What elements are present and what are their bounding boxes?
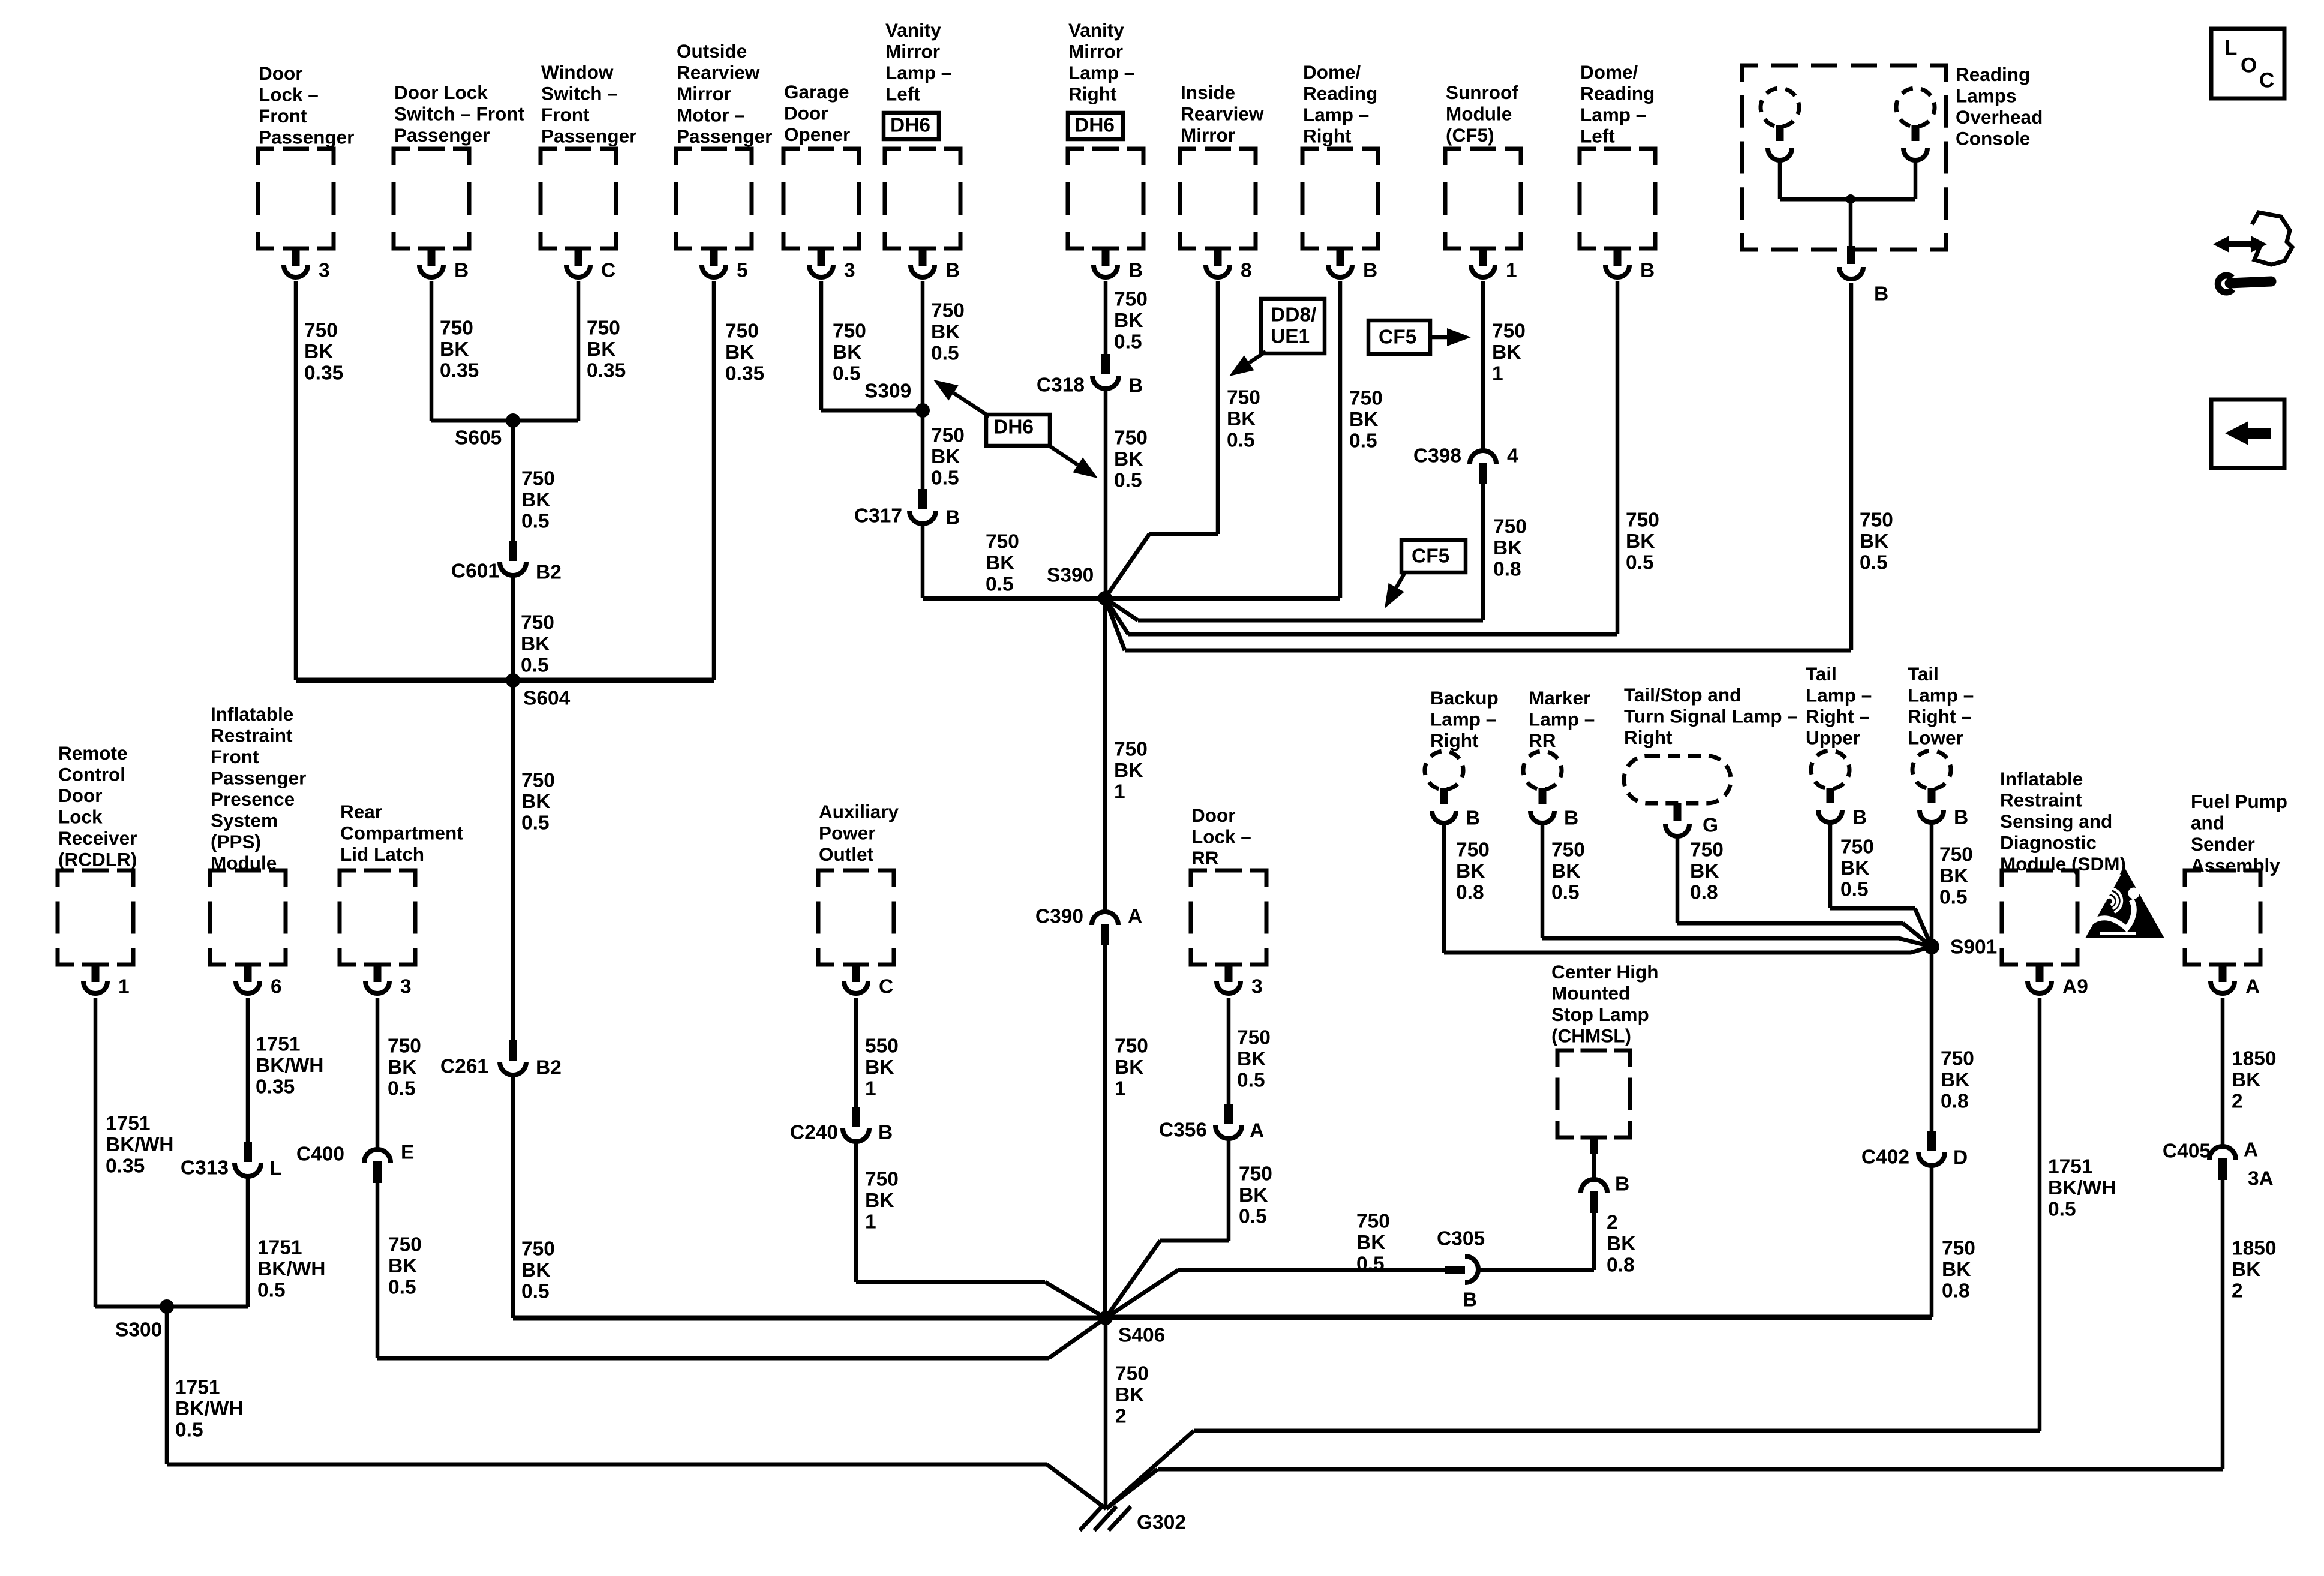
svg-text:0.5: 0.5 bbox=[2048, 1198, 2076, 1220]
svg-text:Restraint: Restraint bbox=[2000, 789, 2082, 810]
svg-text:750: 750 bbox=[986, 530, 1019, 553]
svg-text:1: 1 bbox=[1506, 259, 1517, 281]
pin connector 3 of Garage Door Opener bbox=[809, 248, 855, 281]
svg-text:0.8: 0.8 bbox=[1941, 1090, 1969, 1112]
svg-text:S309: S309 bbox=[864, 380, 911, 402]
wire Vanity Mirror Lamp Right pin B to C318 bbox=[1104, 281, 1108, 355]
svg-text:BK: BK bbox=[865, 1056, 894, 1079]
connector C400 E bbox=[296, 1141, 414, 1183]
svg-text:750: 750 bbox=[521, 467, 555, 490]
svg-text:Left: Left bbox=[885, 83, 920, 104]
svg-text:System: System bbox=[211, 809, 278, 831]
svg-text:1751: 1751 bbox=[257, 1236, 302, 1259]
wire label 550 BK 1 (aux power outlet) bbox=[865, 1035, 899, 1100]
svg-text:3A: 3A bbox=[2248, 1167, 2274, 1190]
pin B of Marker Lamp – RR bbox=[1564, 807, 1578, 829]
svg-text:BK: BK bbox=[1626, 530, 1655, 553]
svg-text:3: 3 bbox=[844, 259, 855, 281]
lamp: Tail/Stop and Turn Signal Lamp - Right bbox=[1624, 756, 1731, 836]
svg-text:0.8: 0.8 bbox=[1690, 881, 1718, 903]
pin connector A9 of SDM bbox=[2028, 964, 2088, 998]
svg-text:B: B bbox=[1466, 807, 1480, 829]
svg-text:Door: Door bbox=[58, 785, 103, 806]
svg-text:750: 750 bbox=[521, 611, 554, 634]
svg-text:1850: 1850 bbox=[2232, 1237, 2277, 1259]
svg-text:0.5: 0.5 bbox=[1227, 429, 1255, 451]
lamp: Tail Lamp - Right - Lower bbox=[1908, 663, 1974, 822]
wire Tail/Stop Lamp to S901 bbox=[1677, 836, 1932, 947]
svg-text:0.5: 0.5 bbox=[1356, 1253, 1385, 1275]
wire reading lamp left to junction bbox=[1780, 160, 1851, 199]
wire RCDLR pin 1 to S300 bbox=[94, 998, 98, 1307]
svg-text:RR: RR bbox=[1529, 730, 1556, 751]
component box: Inside Rearview Mirror bbox=[1180, 82, 1264, 248]
svg-text:Passenger: Passenger bbox=[677, 125, 772, 147]
svg-text:E: E bbox=[401, 1141, 414, 1163]
svg-text:0.5: 0.5 bbox=[1114, 469, 1142, 491]
svg-text:750: 750 bbox=[1551, 839, 1585, 861]
svg-text:BK: BK bbox=[725, 341, 754, 364]
callout tag DD8/UE1 bbox=[1229, 299, 1325, 376]
svg-text:Console: Console bbox=[1956, 127, 2030, 149]
svg-text:L: L bbox=[2224, 36, 2237, 59]
svg-text:1: 1 bbox=[865, 1077, 876, 1100]
wire label 750 BK 0.5 (dome reading right) bbox=[1349, 387, 1383, 452]
svg-text:B: B bbox=[1615, 1173, 1629, 1195]
svg-text:750: 750 bbox=[1114, 427, 1148, 449]
icon back-arrow box bbox=[2211, 400, 2284, 468]
svg-text:O: O bbox=[2241, 53, 2257, 77]
connector C240 B bbox=[790, 1107, 893, 1143]
svg-text:Door: Door bbox=[259, 62, 303, 84]
callout tag DH6 (vanity left) bbox=[884, 113, 939, 139]
wire S604 horizontal bus bbox=[296, 678, 714, 683]
wire label 2 BK 0.8 (CHMSL) bbox=[1607, 1211, 1635, 1276]
svg-text:Outside: Outside bbox=[677, 40, 747, 62]
svg-text:750: 750 bbox=[388, 1233, 422, 1256]
svg-text:750: 750 bbox=[1115, 1362, 1149, 1385]
wire Aux Power Outlet pin C to C240 bbox=[854, 998, 858, 1107]
wire label 750 BK 0.5 (door lock RR) bbox=[1237, 1026, 1271, 1091]
pin connector 3 of Door Lock – Front Passenger bbox=[284, 248, 330, 281]
wire label 750 BK 2 (S406 to G302) bbox=[1115, 1362, 1149, 1427]
svg-text:750: 750 bbox=[1239, 1163, 1272, 1185]
svg-text:BK: BK bbox=[521, 1259, 550, 1281]
svg-text:Auxiliary: Auxiliary bbox=[819, 801, 899, 822]
svg-text:750: 750 bbox=[1456, 839, 1490, 861]
svg-text:BK: BK bbox=[388, 1255, 417, 1277]
splice S901 bbox=[1924, 936, 1997, 958]
wire C398 to S390 line bbox=[1481, 484, 1485, 620]
svg-text:5: 5 bbox=[737, 259, 748, 281]
wire Inside Rearview Mirror pin 8 down bbox=[1216, 281, 1220, 534]
wire label 750 BK 0.5 (S605 to C601) bbox=[521, 467, 555, 532]
wire label 750 BK 1 (C390 to S406) bbox=[1115, 1035, 1148, 1100]
component box: Auxiliary Power Outlet bbox=[818, 801, 899, 965]
svg-text:750: 750 bbox=[1114, 288, 1148, 310]
svg-text:BK: BK bbox=[1492, 341, 1521, 364]
svg-text:Lamp –: Lamp – bbox=[1908, 684, 1974, 706]
lamp label Tail/Stop and Turn Signal Lamp - Right bbox=[1624, 684, 1798, 748]
component box: Center High Mounted Stop Lamp (CHMSL) bbox=[1551, 961, 1659, 1137]
svg-text:Lamp –: Lamp – bbox=[1068, 62, 1134, 83]
connector C405 A 3A bbox=[2163, 1139, 2274, 1190]
svg-text:Tail/Stop and: Tail/Stop and bbox=[1624, 684, 1741, 706]
svg-text:BK: BK bbox=[833, 341, 861, 364]
svg-text:2: 2 bbox=[2232, 1090, 2243, 1112]
lamp: Tail Lamp - Right - Upper bbox=[1806, 663, 1872, 822]
component box: Door Lock Switch – Front Passenger bbox=[394, 82, 525, 248]
svg-text:Rearview: Rearview bbox=[1181, 103, 1264, 124]
wire label 1751 BK/WH 0.35 (RCDLR) bbox=[106, 1112, 174, 1177]
connector B of CHMSL bbox=[1581, 1137, 1629, 1213]
svg-text:Mirror: Mirror bbox=[677, 83, 731, 104]
component box: Fuel Pump and Sender Assembly bbox=[2185, 791, 2287, 965]
wire C317 down and right to S390 bbox=[923, 524, 1105, 598]
svg-text:2: 2 bbox=[1607, 1211, 1618, 1233]
svg-text:Right –: Right – bbox=[1908, 706, 1972, 727]
svg-text:0.35: 0.35 bbox=[440, 359, 479, 382]
wire label 750 BK 0.8 (S901 to C402) bbox=[1941, 1047, 1974, 1112]
connector C317 B bbox=[854, 489, 960, 529]
svg-text:Lock –: Lock – bbox=[1191, 825, 1251, 847]
svg-text:D: D bbox=[1953, 1146, 1968, 1169]
svg-text:C: C bbox=[2259, 68, 2274, 92]
svg-text:G: G bbox=[1703, 814, 1718, 836]
svg-text:Lower: Lower bbox=[1908, 727, 1963, 748]
svg-text:750: 750 bbox=[304, 319, 338, 341]
svg-text:Presence: Presence bbox=[211, 788, 295, 810]
wire label 1751 BK/WH 0.5 (SDM) bbox=[2048, 1155, 2116, 1220]
lamp: Marker Lamp – RR bbox=[1519, 687, 1595, 823]
svg-text:Center High: Center High bbox=[1551, 961, 1659, 983]
ground G302 bbox=[1080, 1506, 1186, 1533]
connector C390 A bbox=[1035, 905, 1142, 945]
svg-text:Lamp –: Lamp – bbox=[885, 62, 951, 83]
wire Fuel Pump to C405 bbox=[2221, 998, 2225, 1145]
wire garage door opener to S309 bbox=[821, 409, 923, 413]
svg-text:Fuel Pump: Fuel Pump bbox=[2191, 791, 2287, 812]
svg-text:1: 1 bbox=[865, 1211, 876, 1233]
pin connector B of Vanity Mirror Lamp – Left bbox=[911, 248, 960, 281]
svg-text:DH6: DH6 bbox=[993, 416, 1034, 438]
svg-text:BK: BK bbox=[1493, 537, 1522, 559]
svg-text:0.8: 0.8 bbox=[1942, 1280, 1970, 1302]
svg-text:Stop Lamp: Stop Lamp bbox=[1551, 1004, 1649, 1025]
wire S604 to C261 bbox=[511, 680, 515, 1041]
wire Vanity Mirror Lamp Left pin B to S309 bbox=[921, 281, 925, 410]
svg-text:0.5: 0.5 bbox=[521, 812, 550, 834]
svg-text:C405: C405 bbox=[2163, 1140, 2211, 1162]
svg-text:750: 750 bbox=[587, 317, 620, 339]
svg-text:0.5: 0.5 bbox=[521, 654, 549, 676]
wire Backup Lamp to S901 bbox=[1444, 822, 1932, 953]
svg-text:BK: BK bbox=[1356, 1232, 1385, 1254]
svg-text:750: 750 bbox=[1349, 387, 1383, 409]
svg-text:BK: BK bbox=[304, 341, 333, 363]
svg-text:BK: BK bbox=[1607, 1233, 1635, 1255]
svg-text:(RCDLR): (RCDLR) bbox=[58, 848, 137, 870]
svg-text:Switch – Front: Switch – Front bbox=[394, 103, 525, 124]
callout tag DH6 (vanity right) bbox=[1068, 113, 1123, 139]
svg-text:Passenger: Passenger bbox=[211, 767, 306, 788]
wire junction to console pin B bbox=[1849, 199, 1853, 246]
svg-text:A: A bbox=[2244, 1139, 2258, 1161]
wire C261 to S406 bus bbox=[513, 1074, 1106, 1318]
svg-text:550: 550 bbox=[865, 1035, 899, 1057]
splice S309 bbox=[864, 380, 930, 418]
svg-text:DD8/: DD8/ bbox=[1271, 304, 1316, 326]
svg-text:2: 2 bbox=[1115, 1405, 1127, 1427]
svg-text:Lamp –: Lamp – bbox=[1529, 708, 1595, 730]
svg-text:Opener: Opener bbox=[784, 124, 850, 145]
wire Dome Reading Lamp Left pin B down bbox=[1616, 281, 1620, 634]
svg-text:C261: C261 bbox=[440, 1055, 488, 1077]
svg-text:750: 750 bbox=[388, 1035, 421, 1057]
svg-text:0.8: 0.8 bbox=[1493, 558, 1521, 580]
svg-text:Module (SDM): Module (SDM) bbox=[2000, 853, 2126, 875]
component box: Door Lock – RR bbox=[1191, 804, 1266, 965]
svg-text:Upper: Upper bbox=[1806, 727, 1860, 748]
svg-text:B2: B2 bbox=[536, 561, 562, 583]
svg-text:Marker: Marker bbox=[1529, 687, 1590, 709]
svg-text:BK: BK bbox=[587, 338, 615, 361]
wire label 750 BK 0.5 (C261 to S406) bbox=[521, 1238, 555, 1302]
svg-text:Sunroof: Sunroof bbox=[1446, 82, 1518, 103]
svg-text:Module: Module bbox=[211, 852, 277, 873]
svg-text:1850: 1850 bbox=[2232, 1047, 2277, 1070]
svg-text:Lock –: Lock – bbox=[259, 83, 319, 105]
wire label 750 BK 0.35 (outside rearview mirror) bbox=[725, 320, 764, 385]
lamp: Backup Lamp – Right bbox=[1421, 687, 1499, 823]
svg-text:S605: S605 bbox=[455, 427, 502, 449]
svg-text:750: 750 bbox=[725, 320, 759, 342]
wire label 750 BK 1 (below C240) bbox=[865, 1168, 899, 1233]
wire S605 to C601 bbox=[511, 421, 515, 541]
svg-text:BK: BK bbox=[1551, 860, 1580, 882]
svg-text:S901: S901 bbox=[1950, 936, 1997, 958]
connector C402 D bbox=[1861, 1131, 1968, 1169]
svg-text:C317: C317 bbox=[854, 505, 902, 527]
component box: Reading Lamps Overhead Console bbox=[1742, 64, 2043, 250]
svg-text:Reading: Reading bbox=[1303, 82, 1377, 104]
wire C313 to S300 bbox=[246, 1176, 250, 1307]
svg-text:DH6: DH6 bbox=[890, 114, 930, 136]
node reading lamps junction bbox=[1846, 194, 1855, 204]
pin connector 5 of Outside Rearview Mirror Motor – Passenger bbox=[702, 248, 748, 281]
svg-text:Lock: Lock bbox=[58, 806, 103, 827]
svg-text:Turn Signal Lamp –: Turn Signal Lamp – bbox=[1624, 705, 1798, 727]
wire Garage Door Opener pin 3 down bbox=[819, 281, 824, 410]
connector C356 A bbox=[1159, 1104, 1264, 1142]
splice S300 bbox=[115, 1299, 174, 1341]
svg-text:BK: BK bbox=[1239, 1184, 1268, 1206]
svg-text:C318: C318 bbox=[1037, 374, 1085, 396]
svg-text:0.5: 0.5 bbox=[388, 1077, 416, 1100]
svg-text:750: 750 bbox=[521, 1238, 555, 1260]
svg-text:BK/WH: BK/WH bbox=[257, 1258, 326, 1280]
svg-text:C390: C390 bbox=[1035, 905, 1083, 927]
wire Reading Lamps console pin B down bbox=[1849, 283, 1854, 650]
svg-text:0.8: 0.8 bbox=[1456, 881, 1484, 903]
wire label 750 BK 0.5 (C317 to S390) bbox=[986, 530, 1019, 595]
svg-text:Switch –: Switch – bbox=[541, 82, 618, 104]
svg-text:750: 750 bbox=[1115, 1035, 1148, 1057]
wire S300 to G302 bbox=[167, 1307, 1106, 1509]
wire Tail Lamp Lower to S901 bbox=[1930, 822, 1934, 947]
wire S390 branch to sunroof line bbox=[1105, 598, 1483, 620]
pin connector A of Fuel Pump bbox=[2211, 964, 2260, 998]
svg-text:1751: 1751 bbox=[256, 1033, 301, 1055]
svg-text:DH6: DH6 bbox=[1074, 114, 1115, 136]
svg-text:Left: Left bbox=[1580, 125, 1615, 146]
svg-text:Receiver: Receiver bbox=[58, 827, 137, 849]
svg-text:Sensing and: Sensing and bbox=[2000, 810, 2112, 832]
wire Tail Lamp Upper to S901 bbox=[1830, 822, 1932, 947]
callout tag CF5 (lower) bbox=[1385, 540, 1466, 608]
svg-text:750: 750 bbox=[1492, 320, 1526, 342]
svg-text:Window: Window bbox=[541, 61, 614, 83]
wire label 750 BK 0.5 (vanity left) bbox=[931, 299, 965, 364]
svg-text:Backup: Backup bbox=[1430, 687, 1499, 709]
svg-text:0.5: 0.5 bbox=[388, 1276, 416, 1298]
reading lamp bulb left bbox=[1756, 84, 1803, 160]
wire label 750 BK 0.5 (C601 to S604) bbox=[521, 611, 554, 676]
wire S390 branch to dome left line bbox=[1105, 598, 1617, 634]
svg-text:750: 750 bbox=[1493, 515, 1527, 538]
svg-text:0.5: 0.5 bbox=[257, 1279, 286, 1301]
svg-text:(PPS): (PPS) bbox=[211, 831, 261, 852]
wire label 750 BK 0.5 (C318 to S390) bbox=[1114, 427, 1148, 491]
wire Dome Reading Lamp Right pin B down bbox=[1338, 281, 1343, 598]
svg-text:CF5: CF5 bbox=[1379, 326, 1416, 348]
connector C261 B2 bbox=[440, 1040, 562, 1079]
svg-text:BK: BK bbox=[1939, 865, 1968, 887]
wire label 750 BK 0.5 (S309 to C317) bbox=[931, 424, 965, 489]
wire label 750 BK 1 (sunroof) bbox=[1492, 320, 1526, 385]
wire C318 to S390 bbox=[1104, 389, 1108, 598]
svg-text:0.5: 0.5 bbox=[1114, 331, 1142, 353]
svg-text:750: 750 bbox=[931, 299, 965, 322]
svg-text:RR: RR bbox=[1191, 847, 1219, 869]
pin connector 6 bbox=[236, 964, 282, 998]
svg-text:1: 1 bbox=[1115, 1077, 1126, 1100]
wire label 1751 BK/WH 0.5 (below C313) bbox=[257, 1236, 326, 1301]
svg-text:750: 750 bbox=[521, 769, 555, 791]
pin connector 3 bbox=[365, 964, 412, 998]
wire label 750 BK 0.35 (window switch) bbox=[587, 317, 626, 382]
reading lamp bulb right bbox=[1892, 84, 1939, 160]
svg-text:B: B bbox=[1128, 259, 1143, 281]
wire S390 branch to reading lamps line bbox=[1105, 598, 1851, 650]
svg-text:BK: BK bbox=[1349, 409, 1378, 431]
svg-text:1751: 1751 bbox=[175, 1376, 220, 1398]
svg-text:Front: Front bbox=[259, 105, 307, 127]
svg-text:Tail: Tail bbox=[1908, 663, 1939, 685]
svg-text:0.35: 0.35 bbox=[304, 362, 343, 384]
svg-text:Passenger: Passenger bbox=[394, 124, 490, 146]
svg-text:(CHMSL): (CHMSL) bbox=[1551, 1025, 1631, 1046]
svg-text:0.35: 0.35 bbox=[106, 1155, 145, 1177]
svg-text:Right: Right bbox=[1068, 83, 1117, 104]
svg-text:750: 750 bbox=[1942, 1237, 1975, 1259]
svg-text:BK: BK bbox=[931, 321, 960, 343]
svg-text:BK: BK bbox=[2232, 1259, 2260, 1281]
svg-text:0.5: 0.5 bbox=[1840, 878, 1869, 900]
component box: Remote Control Door Lock Receiver (RCDLR) bbox=[58, 742, 137, 965]
svg-text:Door Lock: Door Lock bbox=[394, 82, 488, 103]
wire label 750 BK 0.5 (below C400) bbox=[388, 1233, 422, 1298]
svg-text:750: 750 bbox=[865, 1168, 899, 1190]
svg-text:Lamp –: Lamp – bbox=[1430, 708, 1496, 730]
svg-text:Vanity: Vanity bbox=[1068, 19, 1124, 41]
svg-text:BK: BK bbox=[1941, 1069, 1969, 1091]
svg-text:750: 750 bbox=[440, 317, 473, 339]
svg-text:BK: BK bbox=[931, 446, 960, 468]
svg-text:C398: C398 bbox=[1413, 445, 1461, 467]
svg-text:Dome/: Dome/ bbox=[1303, 61, 1361, 83]
pin connector B of Door Lock Switch – Front Passenger bbox=[419, 248, 469, 281]
svg-text:3: 3 bbox=[319, 259, 330, 281]
svg-text:C402: C402 bbox=[1861, 1146, 1909, 1168]
component box: Outside Rearview Mirror Motor – Passenger bbox=[676, 40, 772, 248]
splice S605 bbox=[455, 413, 520, 449]
wire Window Switch pin C to S605 bbox=[577, 281, 581, 421]
wire inside rearview jog to S390 bbox=[1105, 534, 1218, 598]
svg-text:750: 750 bbox=[1356, 1210, 1390, 1232]
wire S300 horizontal bbox=[95, 1305, 248, 1309]
svg-text:Overhead: Overhead bbox=[1956, 106, 2043, 128]
wire S406 to G302 bbox=[1104, 1318, 1108, 1509]
wire label 750 BK 0.5 (tail lower) bbox=[1939, 843, 1973, 908]
svg-text:BK/WH: BK/WH bbox=[106, 1134, 174, 1156]
svg-text:B: B bbox=[1564, 807, 1578, 829]
svg-text:A: A bbox=[1128, 905, 1142, 927]
wire CHMSL to C305 line bbox=[1479, 1212, 1594, 1270]
svg-text:0.5: 0.5 bbox=[1349, 430, 1377, 452]
svg-text:Inside: Inside bbox=[1181, 82, 1235, 103]
wire label 750 BK 0.8 (backup lamp) bbox=[1456, 839, 1490, 903]
connector C318 B bbox=[1037, 354, 1143, 397]
svg-text:C313: C313 bbox=[181, 1157, 229, 1179]
svg-text:B: B bbox=[454, 259, 469, 281]
svg-text:BK: BK bbox=[1115, 1056, 1143, 1079]
pin connector C bbox=[844, 964, 893, 998]
wire label 750 BK 0.5 (below C356) bbox=[1239, 1163, 1272, 1227]
pin connector 8 of Inside Rearview Mirror bbox=[1206, 248, 1252, 281]
svg-text:Right: Right bbox=[1430, 730, 1479, 751]
airbag warning triangle icon bbox=[2085, 868, 2164, 938]
wire S390 to Dome Reading Lamp Right bbox=[1105, 596, 1340, 601]
svg-text:Lamp –: Lamp – bbox=[1580, 104, 1646, 125]
svg-text:BK: BK bbox=[440, 338, 469, 361]
wire label 750 BK 0.5 (marker lamp) bbox=[1551, 839, 1585, 903]
svg-text:UE1: UE1 bbox=[1271, 325, 1310, 347]
svg-text:Passenger: Passenger bbox=[259, 126, 354, 148]
svg-text:BK: BK bbox=[388, 1056, 416, 1079]
wire C601 to S604 bbox=[511, 575, 515, 680]
wire label 750 BK 0.5 (rear lid latch) bbox=[388, 1035, 421, 1100]
pin connector B of Dome/Reading Lamp – Left bbox=[1605, 248, 1655, 281]
svg-text:BK: BK bbox=[1115, 1384, 1144, 1406]
svg-text:Passenger: Passenger bbox=[541, 125, 636, 146]
component box: Door Lock – Front Passenger bbox=[258, 62, 354, 248]
wire Door Lock RR pin 3 to C356 bbox=[1227, 998, 1231, 1104]
svg-text:1: 1 bbox=[118, 975, 130, 998]
svg-text:Control: Control bbox=[58, 763, 125, 785]
wire SDM to G302 bbox=[1106, 998, 2040, 1509]
svg-text:Right: Right bbox=[1624, 727, 1673, 748]
